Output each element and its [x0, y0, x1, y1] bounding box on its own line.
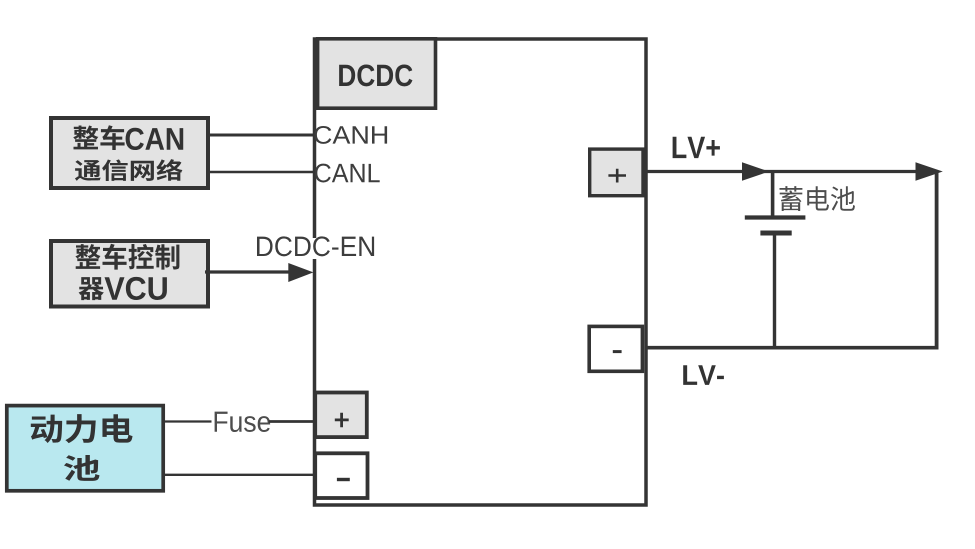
DCDC converter enclosure block — [315, 39, 647, 505]
wire HV+ to fuse — [165, 420, 212, 422]
wire DCDC-EN enable signal — [205, 270, 290, 273]
vehicle CAN box text 通信网络 — [75, 159, 183, 181]
vehicle CAN network box — [51, 118, 208, 188]
DCDC label text — [339, 64, 412, 86]
arrowhead DCDC-EN — [288, 263, 313, 282]
HV- input terminal box — [315, 453, 367, 498]
LV- output terminal box — [589, 326, 642, 371]
LV- terminal minus sign — [613, 350, 622, 353]
HV+ terminal plus sign — [335, 413, 349, 427]
wire LV- — [646, 346, 939, 350]
HV+ input terminal box — [315, 393, 367, 438]
vehicle CAN box text 整车 — [73, 125, 124, 150]
pin label DCDC-EN — [257, 236, 374, 256]
pin label CANL — [315, 164, 380, 183]
wire right return loop vertical — [935, 172, 939, 348]
battery BT1 positive plate — [745, 215, 806, 219]
VCU box text 器 — [79, 277, 104, 300]
battery BT1 top lead — [771, 171, 775, 216]
arrowhead LV+ mid — [742, 162, 769, 181]
VCU box text VCU — [105, 277, 167, 300]
power battery text 池 — [64, 455, 100, 481]
wire HV- — [165, 474, 315, 476]
wire fuse to HV+ terminal — [269, 420, 315, 423]
net label LV+ — [673, 137, 720, 158]
HV- terminal minus sign — [337, 478, 350, 481]
vehicle CAN box text CAN — [126, 128, 184, 150]
vehicle controller VCU box — [51, 241, 208, 307]
net label LV- — [683, 365, 724, 385]
enclosure edge gap behind DCDC-EN label — [305, 238, 327, 259]
battery label 蓄电池 — [780, 186, 855, 211]
wire CANL — [210, 171, 315, 174]
power battery text 动力电 — [31, 414, 133, 443]
battery BT1 bottom lead — [773, 235, 776, 350]
LV+ output terminal box — [590, 149, 643, 196]
wire CANH — [210, 134, 315, 137]
pin label CANH — [314, 126, 387, 144]
fuse label F1 — [215, 412, 271, 432]
VCU box text 整车控制 — [75, 244, 179, 270]
LV+ terminal plus sign — [608, 169, 626, 183]
power battery box 动力电池 — [7, 406, 163, 491]
battery BT1 negative plate — [760, 231, 791, 236]
arrowhead LV+ right corner — [916, 162, 943, 181]
wire LV+ — [646, 170, 937, 173]
DCDC label box U1 — [318, 39, 436, 108]
